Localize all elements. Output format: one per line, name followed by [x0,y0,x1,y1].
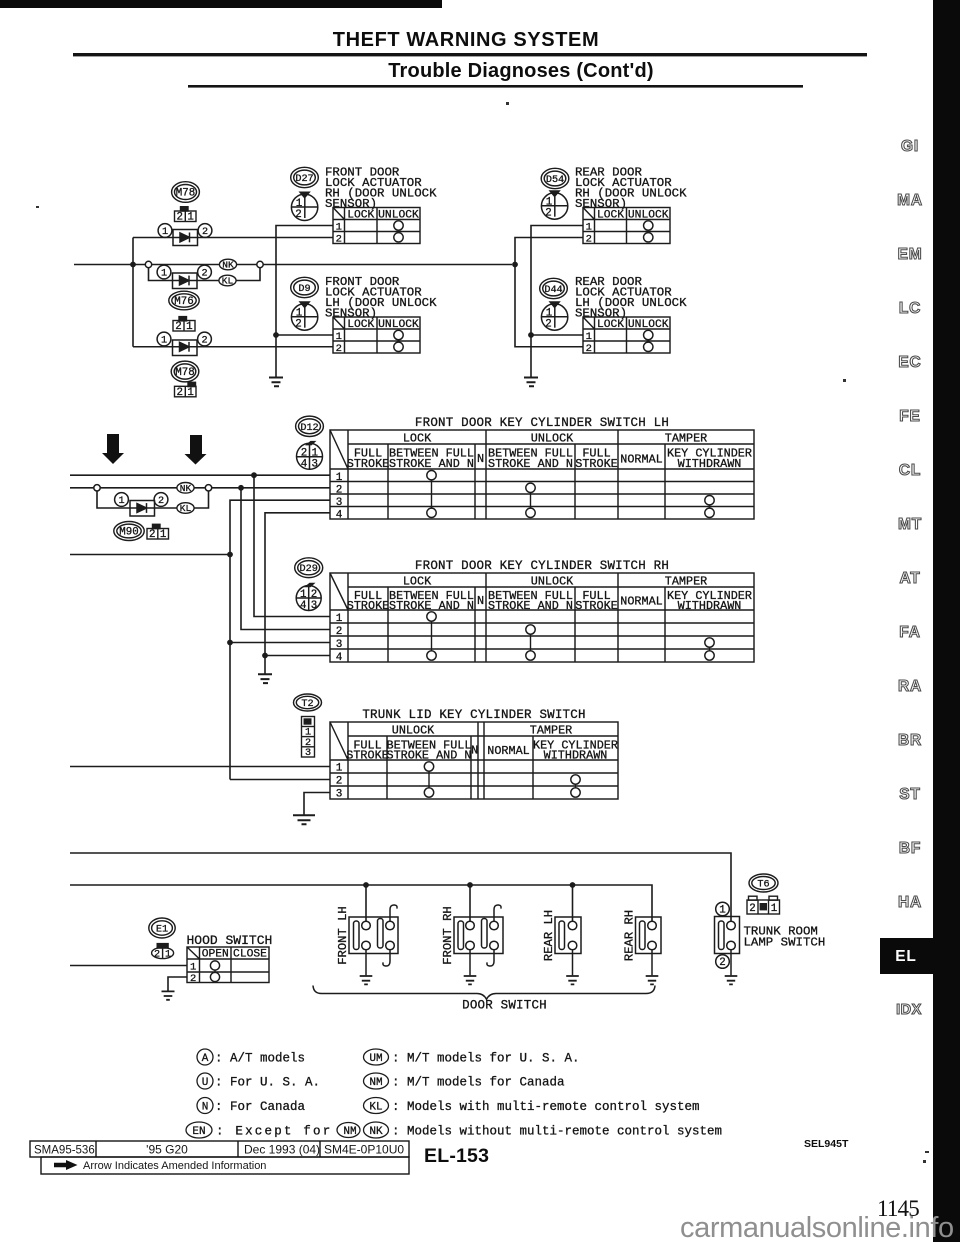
svg-text:KL: KL [222,276,234,287]
svg-text:M90: M90 [119,527,138,539]
legend code EN [186,1122,360,1139]
connector D9 [291,277,319,297]
svg-text:LOCK: LOCK [347,319,374,331]
wire left vertical riser [132,238,134,347]
wire branch to D29 row3 [230,642,330,644]
svg-text:: M/T models for Canada: : M/T models for Canada [392,1076,565,1090]
connector D44 [540,278,568,298]
inline connector terminal left [145,261,151,267]
connector M76 [169,291,199,310]
net label NK (without multi-remote) [219,259,236,270]
legend code NM [364,1073,566,1090]
svg-text:SEL945T: SEL945T [804,1138,849,1150]
svg-text:4: 4 [336,509,343,521]
svg-text:1: 1 [719,904,725,916]
wire drop front RH [469,885,471,921]
svg-text:IDX: IDX [896,1002,922,1018]
svg-text:'95 G20: '95 G20 [146,1143,188,1157]
svg-text:ST: ST [899,786,920,803]
inline connector terminal right [257,261,263,267]
inline connector terminal right (mid) [205,485,211,491]
wire D44 pin 1 branch [531,334,583,336]
svg-text:AT: AT [899,570,920,587]
door switch REAR RH [623,910,662,975]
svg-text:FRONT DOOR KEY CYLINDER SWITCH: FRONT DOOR KEY CYLINDER SWITCH LH [415,416,669,430]
wire riser row2 to D29 row2 [241,488,330,630]
svg-text:Trouble Diagnoses (Cont'd): Trouble Diagnoses (Cont'd) [388,60,654,82]
svg-text:2: 2 [545,319,551,331]
svg-text:GI: GI [901,138,919,155]
svg-text:2: 2 [336,776,343,788]
svg-text:1: 1 [771,903,777,915]
svg-text:1: 1 [118,496,124,507]
svg-text:1: 1 [336,763,343,775]
wire trunk row1 feed [70,766,330,768]
svg-text:OPEN: OPEN [202,949,229,961]
svg-text:UNLOCK: UNLOCK [531,575,574,589]
switch table D44 rear door lock actuator LH [583,317,670,355]
svg-text:LOCK: LOCK [403,575,432,589]
connector icon D44 pins 1,2 [541,301,567,330]
wire D9 pin 1 branch [276,334,333,336]
junction node D44 pin1/ground [528,332,534,338]
svg-text:NORMAL: NORMAL [620,595,662,609]
svg-text:CL: CL [899,462,921,479]
wire D12 row4 to riser [265,513,330,674]
connector icon D9 pins 1,2 [291,301,317,330]
svg-text:2: 2 [201,336,207,347]
svg-text:2: 2 [749,903,755,915]
svg-text:4: 4 [300,600,306,612]
svg-text:2: 2 [586,343,592,355]
svg-text:2: 2 [177,387,183,399]
net label NK (mid) [177,483,194,494]
svg-text:: A/T models: : A/T models [215,1052,305,1066]
svg-text:3: 3 [336,789,343,801]
connector icon M76 pins 2|1 [173,317,195,334]
ground front LH door switch [360,976,373,984]
wire hood switch row2 to ground [168,977,187,991]
svg-text:NORMAL: NORMAL [487,744,529,758]
svg-text:MA: MA [897,192,923,209]
svg-text:STROKE AND N: STROKE AND N [389,457,474,471]
svg-text:SMA95-536: SMA95-536 [34,1145,95,1157]
svg-text:T2: T2 [301,699,313,710]
svg-text:STROKE: STROKE [347,457,389,471]
svg-text:LOCK: LOCK [347,209,374,221]
wire trunk row3 to ground [304,793,330,815]
svg-text:HA: HA [898,894,922,911]
svg-text:BR: BR [898,732,922,749]
wire diode D1 row to D27 pin 2 [133,237,333,239]
wire D12 row3 to riser [230,500,330,779]
svg-text:LC: LC [899,300,921,317]
svg-text:STROKE AND N: STROKE AND N [488,457,573,471]
svg-text:THEFT WARNING SYSTEM: THEFT WARNING SYSTEM [333,29,599,51]
figure code SEL945T [804,1138,849,1150]
svg-text:3: 3 [311,600,317,612]
label HOOD SWITCH [187,933,273,948]
svg-text:STROKE AND N: STROKE AND N [387,749,472,763]
svg-text:STROKE AND N: STROKE AND N [488,599,573,613]
svg-text:SM4E-0P10U0: SM4E-0P10U0 [324,1143,404,1157]
svg-text:2: 2 [202,227,208,238]
legend code KL [364,1098,700,1115]
connector icon D54 pins 1,2 [541,190,567,219]
svg-text:FRONT RH: FRONT RH [441,906,455,965]
svg-text:D9: D9 [298,284,310,295]
title rule 2 [188,85,803,88]
svg-text:U: U [202,1077,209,1089]
svg-text:MT: MT [898,516,922,533]
connector M90 [114,522,144,541]
switch table D29 front door key cylinder switch RH [330,573,754,664]
svg-text:FRONT LH: FRONT LH [336,906,350,965]
wire ground drop front doors [275,335,277,377]
svg-text:UNLOCK: UNLOCK [628,209,669,221]
junction node front RH drop [467,882,473,888]
trunk room lamp switch [715,917,740,976]
ground trunk room lamp switch [725,976,738,984]
svg-text:2: 2 [336,484,343,496]
svg-text:STROKE: STROKE [575,457,617,471]
svg-text:1: 1 [186,321,192,333]
connector D27 [291,167,319,187]
svg-text:Dec 1993 (04): Dec 1993 (04) [244,1143,320,1157]
svg-text:2: 2 [177,212,183,224]
svg-text:Arrow Indicates Amended Inform: Arrow Indicates Amended Information [83,1160,266,1172]
wire rear riser pin1/ground [531,226,583,377]
junction node front LH drop [363,882,369,888]
wire rear bus riser pin2 side [515,238,583,347]
connector icon M90 pins 2|1 [147,524,169,541]
svg-text:3: 3 [336,639,343,651]
svg-text:WITHDRAWN: WITHDRAWN [678,457,742,471]
svg-text:FRONT DOOR KEY CYLINDER SWITCH: FRONT DOOR KEY CYLINDER SWITCH RH [415,559,669,573]
title front door key cylinder switch LH [415,416,669,430]
switch table D27 front door lock actuator RH [333,208,420,246]
scan artifact top black bar [0,0,442,8]
connector icon T6 pins 2,1 [747,896,780,915]
svg-text:4: 4 [336,652,343,664]
svg-text:1: 1 [165,949,171,960]
svg-text:: Except for: : Except for [216,1125,332,1139]
svg-text:RA: RA [898,678,922,695]
svg-text:DOOR SWITCH: DOOR SWITCH [462,999,547,1013]
title front door key cylinder switch RH [415,559,669,573]
svg-text:TAMPER: TAMPER [530,724,572,738]
svg-text:LOCK: LOCK [597,319,624,331]
svg-text:BF: BF [899,840,921,857]
diode D4 (multi-remote) with terminals 1,2 [115,493,168,516]
junction node D9 pin1/ground [273,332,279,338]
title trunk lid key cylinder switch [362,708,585,722]
label FRONT DOOR LOCK ACTUATOR LH (DOOR UNLOCK SENSOR) [325,275,437,321]
svg-text:3: 3 [336,497,343,509]
svg-text:1: 1 [336,472,343,484]
svg-text:1: 1 [187,212,193,224]
wire trunk row2 feed from riser [230,779,330,781]
svg-text:N: N [202,1102,209,1114]
ground front RH door switch [464,976,477,984]
svg-text:1: 1 [187,387,193,399]
connector D29 [295,558,323,578]
footer amended info arrow [54,1160,266,1172]
title rule 1 [73,53,867,56]
ground hood switch [162,991,175,999]
ground front door actuators [269,378,283,387]
svg-text:: M/T models for U. S. A.: : M/T models for U. S. A. [392,1052,580,1066]
wire door-switch bus A to trunk room lamp [70,853,731,921]
svg-text:WITHDRAWN: WITHDRAWN [544,749,608,763]
svg-text:D12: D12 [300,423,318,434]
section index tabs right margin [880,138,935,1018]
connector icon E1 pins 2|1 [152,944,174,961]
svg-text:1: 1 [336,331,342,343]
wire door-switch bus B [70,885,652,921]
svg-text:: Models without multi-remote: : Models without multi-remote control sy… [392,1125,722,1139]
svg-text:NM: NM [343,1126,356,1138]
svg-text:2: 2 [295,209,301,221]
page number 1145 [877,1196,919,1221]
svg-text:UM: UM [369,1053,382,1065]
svg-text:4: 4 [301,458,307,470]
svg-text:2: 2 [586,234,592,246]
label FRONT DOOR LOCK ACTUATOR RH (DOOR UNLOCK SENSOR) [325,165,437,211]
svg-text:1: 1 [190,962,196,974]
wire diode D3 row to D9 pin 2 [133,346,333,348]
connector T2 [294,694,322,711]
wire drop front LH [365,885,367,921]
junction node bus/left riser [130,262,136,268]
net label KL (with multi-remote) [219,275,236,286]
svg-text:KL: KL [369,1102,382,1114]
connector icon D27 pins 1,2 [291,192,317,221]
svg-text:N: N [477,594,484,608]
svg-text:A: A [202,1053,209,1065]
svg-text:LOCK: LOCK [403,432,432,446]
ground key cylinder switches [258,674,272,683]
svg-text:UNLOCK: UNLOCK [531,432,574,446]
footer revision table [30,1141,409,1174]
switch table T2 trunk lid key cylinder switch [330,722,618,801]
net label KL (mid) [177,503,194,514]
ground rear door actuators [524,378,538,387]
label REAR DOOR LOCK ACTUATOR LH (DOOR UNLOCK SENSOR) [575,275,687,321]
svg-text:E1: E1 [156,925,168,936]
connector M78 (lower) [171,361,199,382]
svg-text:2: 2 [336,234,342,246]
svg-text:N: N [477,452,484,466]
svg-text:D54: D54 [546,175,564,186]
label REAR DOOR LOCK ACTUATOR RH (DOOR UNLOCK SENSOR) [575,165,687,211]
svg-text:1: 1 [586,331,592,343]
svg-text:2: 2 [336,343,342,355]
amended-information arrow 2 [185,435,207,465]
svg-text:2: 2 [190,973,196,985]
switch table D54 rear door lock actuator RH [583,208,670,246]
svg-text:UNLOCK: UNLOCK [392,724,435,738]
svg-text:M76: M76 [174,296,193,308]
svg-text:LAMP SWITCH: LAMP SWITCH [744,936,826,950]
door switch FRONT RH [441,905,503,975]
svg-text:EN: EN [192,1126,205,1138]
scan artifact marks [36,102,929,1163]
wire D27 pin 1 drop [276,226,333,336]
svg-text:D27: D27 [295,174,313,185]
svg-text:2: 2 [175,321,181,333]
svg-text:: For Canada: : For Canada [215,1100,306,1114]
wire main bus [74,264,512,266]
wire KL bypass mid section [97,491,209,508]
svg-text:1: 1 [336,613,343,625]
svg-text:STROKE AND N: STROKE AND N [389,599,474,613]
svg-text:M78: M78 [176,188,195,200]
svg-text:1: 1 [336,222,342,234]
svg-text:1: 1 [162,227,168,238]
svg-text:N: N [471,744,478,758]
wire hood switch row1 feed [70,965,187,967]
junction node row2 riser [238,485,244,491]
svg-text:EL: EL [895,948,916,965]
wire D12 row2 feed [70,487,330,489]
wire branch to D29 row4 [265,655,330,657]
svg-text:2: 2 [149,529,155,541]
svg-text:TAMPER: TAMPER [665,432,707,446]
svg-text:WITHDRAWN: WITHDRAWN [678,599,742,613]
label TRUNK ROOM LAMP SWITCH [744,925,826,950]
svg-text:NK: NK [180,483,192,494]
watermark carmanualsonline.info [680,1212,954,1242]
terminal 2 trunk room lamp [716,955,730,969]
connector icon D29 pins 1,2,4,3 [296,583,321,612]
svg-text:HOOD SWITCH: HOOD SWITCH [187,933,273,948]
switch table D12 front door key cylinder switch LH [330,430,754,521]
svg-text:REAR RH: REAR RH [623,910,637,961]
legend code U [197,1073,320,1090]
page code EL-153 [424,1145,489,1167]
label DOOR SWITCH [462,999,547,1013]
svg-text:D29: D29 [300,564,318,575]
junction node D29 row4 branch [262,653,268,659]
svg-text:: Models with multi-remote con: : Models with multi-remote control syste… [392,1100,700,1114]
page title THEFT WARNING SYSTEM [333,29,599,51]
wire left feed row3 net [70,554,230,556]
svg-text:1: 1 [586,222,592,234]
connector icon T2 pins 1,2,3 [302,717,315,760]
svg-text:2: 2 [158,496,164,507]
svg-text:M78: M78 [175,367,194,379]
svg-text:NM: NM [369,1077,382,1089]
svg-text:CLOSE: CLOSE [233,949,267,961]
junction node D29 row3 branch [227,640,233,646]
svg-text:T6: T6 [757,880,769,891]
svg-text:TRUNK LID KEY CYLINDER SWITCH: TRUNK LID KEY CYLINDER SWITCH [362,708,585,722]
junction node row3 left feed [227,552,233,558]
svg-text:2: 2 [719,957,725,969]
svg-text:REAR LH: REAR LH [542,910,556,961]
svg-text:EM: EM [898,246,923,263]
svg-text:EC: EC [898,354,921,371]
svg-text:D44: D44 [544,285,562,296]
wire riser row1 to D29 row1 [254,475,330,616]
wire drop rear LH [572,885,574,921]
scan artifact right black strip [933,0,960,1242]
junction node rear LH drop [570,882,576,888]
svg-text:carmanualsonline.info: carmanualsonline.info [680,1212,954,1242]
connector D54 [541,168,569,188]
svg-text:2: 2 [336,626,343,638]
svg-text:2: 2 [154,949,160,960]
svg-text:STROKE: STROKE [575,599,617,613]
switch table D9 front door lock actuator LH [333,317,420,355]
svg-text:UNLOCK: UNLOCK [378,209,419,221]
legend code NK [364,1122,723,1139]
svg-text:2: 2 [545,208,551,220]
svg-text:NK: NK [222,260,234,271]
diode D3 with terminals 1,2 [157,332,211,355]
svg-text:FA: FA [899,624,920,641]
junction node bus/rear riser [512,262,518,268]
door switch REAR LH [542,910,581,975]
svg-text:KL: KL [180,503,192,514]
connector D12 [296,416,324,436]
svg-text:STROKE: STROKE [346,749,388,763]
ground rear RH door switch [646,976,659,984]
switch table hood switch [187,947,269,985]
svg-text:EL-153: EL-153 [424,1145,489,1167]
svg-text:3: 3 [305,748,311,759]
legend code UM [364,1049,580,1066]
svg-text:FE: FE [899,408,920,425]
svg-text:2: 2 [201,269,207,280]
svg-text:1: 1 [161,269,167,280]
svg-text:: For U. S. A.: : For U. S. A. [215,1076,320,1090]
door switch FRONT LH [336,905,398,975]
legend code N [197,1098,306,1115]
svg-text:3: 3 [312,458,318,470]
connector T6 [749,874,778,892]
ground rear LH door switch [566,976,579,984]
svg-text:NORMAL: NORMAL [620,453,662,467]
connector M78 [172,182,200,203]
brace door switch group [313,986,655,1000]
diode D1 with terminals 1,2 [158,224,212,246]
svg-text:1: 1 [161,336,167,347]
svg-text:NK: NK [369,1126,383,1138]
svg-text:TAMPER: TAMPER [665,575,707,589]
svg-text:2: 2 [295,319,301,331]
terminal 1 trunk room lamp [716,902,730,916]
junction node row1 riser [251,472,257,478]
connector icon D12 pins 2,1,4,3 [297,441,323,471]
svg-text:STROKE: STROKE [347,599,389,613]
svg-text:UNLOCK: UNLOCK [628,319,669,331]
ground trunk lid key cylinder [293,815,315,824]
wire D12 row1 feed [70,474,330,476]
legend code A [197,1049,305,1066]
amended-information arrow 1 [102,434,124,464]
connector icon M78 lower pins 2|1 [175,382,197,399]
connector icon M78 pins 2|1 [175,207,197,224]
svg-text:LOCK: LOCK [597,209,624,221]
wire KL bypass top section [149,267,261,280]
diode D2 (multi-remote) with terminals 1,2 [157,265,211,288]
inline connector terminal left (mid) [94,485,100,491]
svg-text:1: 1 [160,529,166,541]
connector E1 [149,918,175,938]
svg-text:UNLOCK: UNLOCK [378,319,419,331]
